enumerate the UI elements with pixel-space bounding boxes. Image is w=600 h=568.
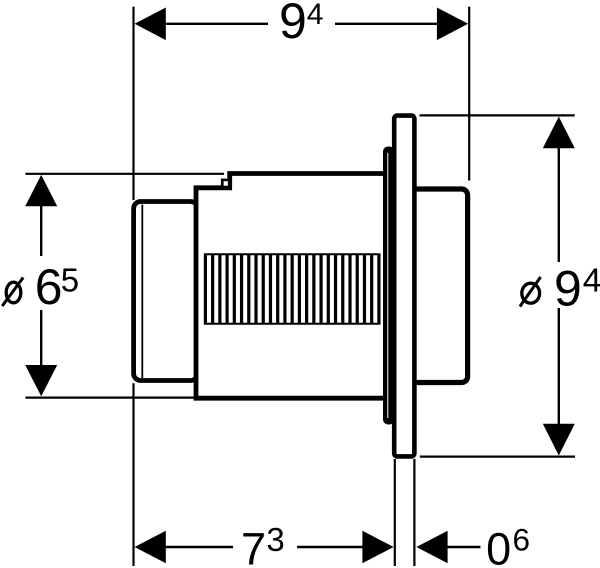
dim73 label 7^3	[241, 521, 285, 568]
svg-text:6: 6	[35, 259, 63, 315]
svg-text:3: 3	[266, 521, 284, 558]
dim65 dimension line	[40, 203, 42, 367]
dim94-right top extension line	[420, 114, 575, 116]
body (cartridge housing)	[196, 174, 386, 399]
body tab with square hole	[221, 179, 230, 190]
dim65 bottom extension line	[25, 397, 194, 399]
ribbed thread section	[204, 254, 380, 325]
dim65 top extension line	[25, 173, 224, 175]
svg-text:4: 4	[583, 263, 600, 300]
dim73 left arrow	[135, 531, 166, 564]
dim94-top left arrow	[135, 8, 166, 41]
dim73 left extension line	[132, 383, 134, 566]
dim06 label 0^6	[486, 522, 530, 568]
dim06 right extension line (flange back)	[413, 459, 415, 566]
dim94-top right arrow	[437, 8, 468, 41]
dim65 bottom arrow	[25, 365, 57, 396]
dim06 arrow	[416, 531, 447, 564]
dim73 right arrow	[362, 531, 393, 564]
dim94-right bottom extension line	[420, 456, 575, 458]
dim65 top arrow	[25, 175, 57, 206]
svg-text:9: 9	[554, 261, 582, 317]
svg-text:0: 0	[486, 524, 511, 568]
cap (push button)	[134, 202, 198, 381]
gasket strip behind flange	[383, 147, 395, 425]
rear cylinder (rough-in housing behind wall)	[408, 189, 468, 383]
dim94-right dimension line	[558, 146, 560, 425]
dim06 left extension line (flange front)	[394, 459, 396, 566]
dim94-top label 9^4	[279, 0, 323, 49]
dim94-right top arrow	[543, 117, 575, 149]
svg-text:5: 5	[61, 262, 79, 299]
dim94-top dimension line	[163, 23, 439, 25]
dim94-top right extension line	[468, 7, 470, 181]
svg-text:4: 4	[307, 0, 324, 31]
dim94-top left extension line	[132, 7, 134, 200]
svg-text:9: 9	[279, 0, 307, 49]
cap face inner line	[141, 205, 143, 379]
dim06 tail line	[447, 546, 481, 548]
dim94-right bottom arrow	[543, 424, 575, 456]
dim65 label ø 6^5	[2, 259, 79, 315]
dim73 dimension line	[163, 546, 364, 548]
svg-text:7: 7	[241, 524, 266, 568]
dim94-right label ø 9^4	[520, 261, 600, 317]
svg-text:6: 6	[513, 522, 531, 558]
flange plate	[394, 116, 414, 457]
